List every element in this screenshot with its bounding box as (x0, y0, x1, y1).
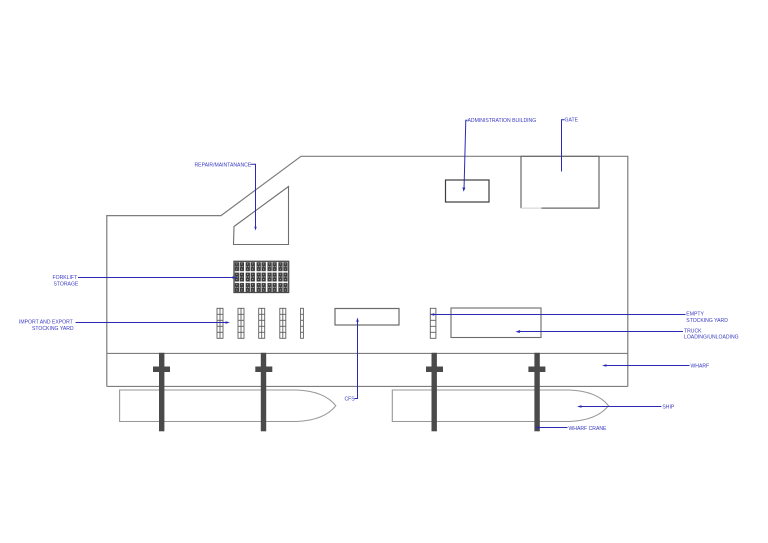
svg-text:REPAIR/MAINTANANCE: REPAIR/MAINTANANCE (195, 162, 252, 168)
label FORKLIFT STORAGE (53, 275, 238, 288)
gate building (521, 156, 599, 208)
forklift storage block (234, 261, 289, 292)
label EMPTY STOCKING YARD (430, 312, 728, 324)
label ADMINISTRATION BUILDING (462, 118, 536, 192)
administration building (446, 180, 490, 202)
wharf crane 1 (153, 353, 170, 432)
label WHARF CRANE (535, 426, 607, 432)
import/export stocking strip 4 (280, 308, 286, 338)
svg-text:FORKLIFT: FORKLIFT (53, 275, 78, 281)
svg-text:STOCKING YARD: STOCKING YARD (32, 326, 74, 332)
repair/maintenance building (234, 187, 289, 245)
svg-text:ADMINISTRATION BUILDING: ADMINISTRATION BUILDING (468, 118, 537, 124)
ship 2 (392, 390, 608, 422)
svg-text:STOCKING YARD: STOCKING YARD (686, 318, 728, 324)
svg-text:WHARF: WHARF (691, 364, 710, 370)
svg-text:GATE: GATE (565, 118, 579, 124)
wharf top line (107, 352, 628, 354)
empty stocking strip (430, 308, 436, 338)
wharf crane 3 (426, 353, 443, 432)
import/export stocking strip 5 (301, 308, 304, 338)
ship 1 (120, 390, 336, 422)
svg-text:LOADING/UNLOADING: LOADING/UNLOADING (684, 335, 739, 341)
svg-text:STORAGE: STORAGE (54, 282, 79, 288)
import/export stocking strip 2 (238, 308, 244, 338)
svg-text:TRUCK: TRUCK (684, 328, 702, 334)
terminal boundary outline (107, 156, 628, 386)
CFS building (335, 309, 399, 326)
svg-text:IMPORT AND EXPORT: IMPORT AND EXPORT (19, 319, 73, 325)
label GATE (562, 118, 579, 172)
import/export stocking strip 1 (217, 308, 223, 338)
wharf bottom line (107, 385, 628, 387)
svg-text:CFS: CFS (345, 397, 356, 403)
wharf crane 2 (255, 353, 272, 432)
label SHIP (577, 405, 675, 411)
label REPAIR/MAINTANANCE (195, 162, 257, 230)
label WHARF (602, 364, 709, 370)
import/export stocking strip 3 (259, 308, 265, 338)
label CFS (345, 318, 359, 403)
truck loading/unloading building (451, 308, 541, 338)
svg-text:WHARF CRANE: WHARF CRANE (569, 426, 608, 432)
svg-text:SHIP: SHIP (662, 405, 674, 411)
svg-text:EMPTY: EMPTY (686, 312, 704, 318)
label TRUCK LOADING/UNLOADING (516, 328, 739, 340)
label IMPORT AND EXPORT STOCKING YARD (19, 319, 230, 332)
wharf crane 4 (528, 353, 545, 432)
